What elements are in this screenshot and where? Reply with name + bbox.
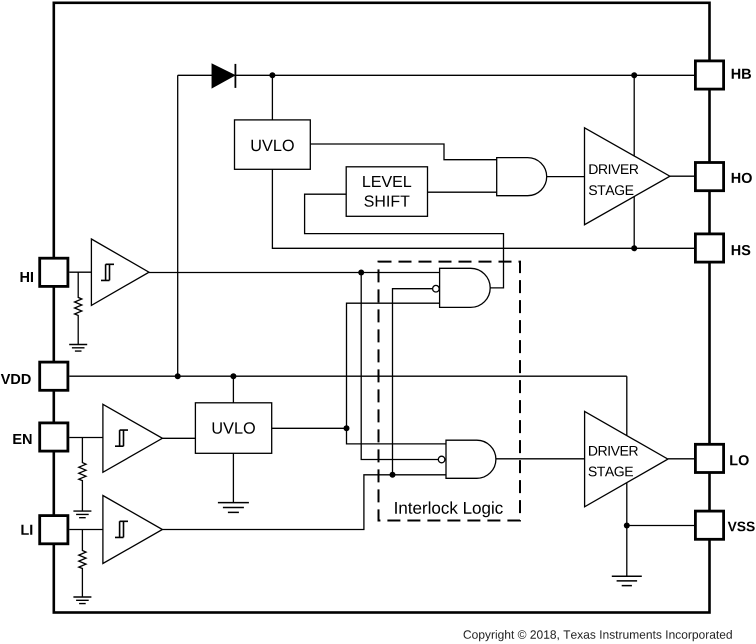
pin HI [40, 258, 68, 286]
text STAGE A1 [589, 185, 634, 195]
schmitt glyph B3 [115, 521, 128, 537]
node HI-branch [358, 270, 364, 276]
pin HB [695, 61, 723, 89]
wire VDD rail [69, 375, 627, 377]
wire LI pin to buffer [69, 529, 103, 531]
nand gate G2 [440, 268, 491, 307]
wire driver out to LO [668, 458, 694, 460]
wire UVLO U1 out to AND gate top input [310, 144, 496, 160]
text DRIVER A1 [589, 164, 638, 174]
wire interlock node up to NAND1 bottom input [347, 303, 440, 428]
wire UVLO U2 out to interlock node [272, 427, 347, 429]
wire EN buffer to UVLO U2 [162, 437, 195, 439]
label LI [21, 525, 32, 535]
pin LO [695, 444, 723, 472]
wire VDD to diode anode vertical [177, 75, 179, 376]
node LI-branch [390, 472, 396, 478]
text UVLO U1 [252, 140, 294, 152]
pin EN [40, 423, 68, 451]
schmitt glyph B2 [115, 430, 128, 446]
wire LI buffer out to NAND2 bottom input [162, 475, 446, 530]
interlock logic dashed box [379, 262, 521, 521]
pin VSS [695, 511, 723, 539]
wire UVLO U2 bottom to ground [232, 453, 234, 502]
node VDD-diode [175, 373, 181, 379]
text DRIVER A2 [589, 446, 638, 456]
resistor R1 [75, 272, 82, 344]
wire top node to UVLO U1 [271, 75, 273, 120]
node top-UVLO [269, 72, 275, 78]
ground UVLO U2 [218, 503, 249, 513]
label HB [732, 69, 751, 79]
pin HO [695, 163, 723, 191]
wire VDD to UVLO U2 [232, 376, 234, 403]
diode D1 [212, 64, 234, 87]
label HI [21, 272, 34, 282]
wire NAND2 out to driver stage [496, 458, 585, 460]
text SHIFT [364, 195, 409, 206]
pin HS [695, 234, 723, 262]
ground R1 [69, 345, 87, 352]
wire diode anode horizontal [178, 74, 213, 76]
node HS [631, 245, 637, 251]
pin LI [40, 516, 68, 544]
wire VDD down to VSS node [626, 376, 628, 525]
label LO [730, 455, 749, 465]
schmitt glyph B1 [101, 264, 114, 280]
text UVLO U2 [213, 422, 255, 434]
wire NAND1 out to LEVEL SHIFT input [305, 194, 504, 288]
LEVEL SHIFT box [346, 167, 427, 217]
text STAGE A2 [589, 467, 634, 477]
label EN [13, 434, 31, 444]
buffer B1 [91, 239, 149, 305]
wire LEVEL SHIFT out to AND gate lower input [428, 191, 497, 193]
wire driver out to HO [670, 175, 694, 177]
UVLO U2 box [195, 403, 271, 454]
wire VSS node to ground [626, 526, 628, 576]
ground R2 [73, 511, 91, 518]
resistor R2 [79, 438, 86, 511]
label VSS [728, 522, 755, 532]
wire HB to HS vertical [633, 75, 635, 248]
and gate G1 [497, 158, 547, 196]
label HO [732, 173, 752, 183]
wire AND out to driver stage [547, 176, 585, 178]
wire UVLO U1 bottom to HS [272, 169, 694, 248]
node HB [631, 72, 637, 78]
wire HI node down to NAND2 middle input [361, 273, 438, 460]
UVLO U1 box [235, 120, 311, 169]
wire HI pin to buffer [69, 271, 91, 273]
resistor R3 [79, 530, 86, 597]
text LEVEL [363, 176, 411, 187]
wire HI buffer out to NAND1 [149, 272, 440, 274]
driver stage A2 [585, 411, 668, 506]
buffer B2 [103, 404, 162, 472]
wire interlock node down to NAND2 top input [347, 428, 447, 444]
ground R3 [73, 597, 91, 604]
buffer B3 [103, 496, 162, 564]
bubble G2 [433, 285, 440, 292]
node VSS [624, 523, 630, 529]
pin VDD [40, 362, 68, 390]
wire NAND1 middle input from LI line [393, 289, 433, 475]
label HS [732, 245, 751, 255]
bubble G3 [438, 456, 445, 463]
wire diode cathode to HB [235, 74, 694, 76]
text Interlock Logic [395, 501, 503, 517]
label VDD [1, 374, 31, 384]
node EN-branch [344, 425, 350, 431]
node VDD-UVLO2 [230, 373, 236, 379]
nand gate G3 [446, 440, 496, 478]
ground VSS [612, 576, 642, 585]
driver stage A1 [585, 128, 670, 225]
wire VSS node to VSS pin [627, 525, 694, 527]
copyright [464, 630, 732, 641]
wire EN pin to buffer [69, 437, 103, 439]
